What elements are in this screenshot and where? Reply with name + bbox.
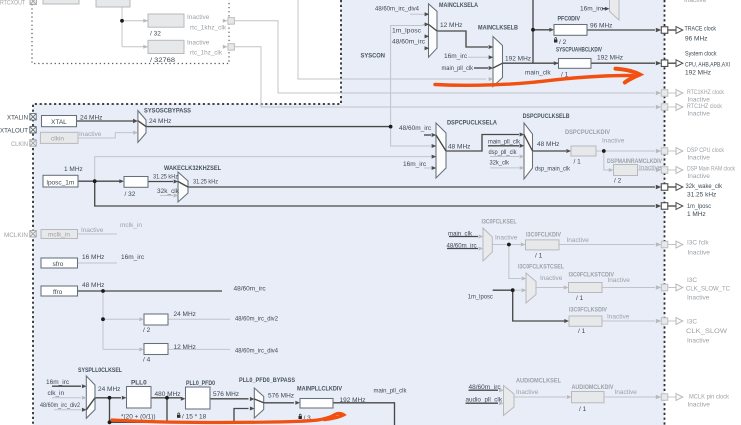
wire SYSOSC 24MHz to node xyxy=(146,126,391,128)
wire SYSPLL0CLKSEL 24MHz to PLL0 xyxy=(95,397,121,399)
svg-text:main_pll_clk: main_pll_clk xyxy=(442,65,474,72)
wire AUDIOMCLKDIV to MCLK output xyxy=(604,396,656,398)
wire 16m_irc stub to SYSPLL0CLKSEL xyxy=(52,385,81,387)
pin RTCXOUT xyxy=(30,0,36,4)
svg-text:DSPCPUCLKDIV: DSPCPUCLKDIV xyxy=(565,129,611,136)
svg-text:32k_clk: 32k_clk xyxy=(157,188,180,195)
svg-text:Inactive: Inactive xyxy=(684,0,707,4)
node lposc branch xyxy=(93,179,97,183)
svg-text:AUDIOMCLKSEL: AUDIOMCLKSEL xyxy=(516,378,561,385)
svg-text:/ 1: / 1 xyxy=(579,406,587,413)
svg-text:16m_irc: 16m_irc xyxy=(444,53,468,60)
wire ffro branch to /2 /4 dividers xyxy=(103,291,139,349)
wire rtc_1hz_clk to RTC1HZ output xyxy=(235,47,655,107)
wire rtc_1khz_clk to RTC1KHZ output xyxy=(235,21,655,93)
wire PFD0 576MHz to BYPASS mux xyxy=(210,398,249,400)
wire clkin inactive to SYSOSCBYPASS xyxy=(78,133,133,138)
wire 32k to MAINCLKSELB input4 xyxy=(298,0,486,79)
arrows I3C0FCLKSTCSEL xyxy=(522,277,527,281)
mux WAKECLK32KHZSEL xyxy=(178,172,188,202)
svg-text:/ 2: / 2 xyxy=(559,39,567,46)
connector TRACE clock xyxy=(656,27,683,34)
arrows I3C0FCLKSEL xyxy=(479,235,484,239)
connector rtc_1hz_clk xyxy=(223,44,235,51)
svg-text:48 MHz: 48 MHz xyxy=(537,141,559,148)
svg-text:Inactive: Inactive xyxy=(688,402,711,409)
arrows AUDIOMCLKSEL xyxy=(499,388,504,392)
wire 16m_irc stub top right xyxy=(602,8,605,10)
arrow into I3C0FCLKSDIV xyxy=(564,319,569,323)
svg-text:TRACE clock: TRACE clock xyxy=(685,26,717,33)
svg-text:1 MHz: 1 MHz xyxy=(64,166,83,173)
svg-text:DSP CPU clock: DSP CPU clock xyxy=(687,147,725,154)
pin CLKIN xyxy=(30,140,36,146)
SYSCPUAHBCLKDIV box xyxy=(559,59,592,69)
svg-text:576 MHz: 576 MHz xyxy=(213,391,239,398)
svg-text:I3C0FCLKSTCSEL: I3C0FCLKSTCSEL xyxy=(518,264,564,271)
svg-text:I3C: I3C xyxy=(687,277,697,284)
svg-text:48/60m_irc_div2: 48/60m_irc_div2 xyxy=(40,402,80,409)
I3C0FCLKSTCDIV box xyxy=(569,283,603,293)
svg-text:Inactive: Inactive xyxy=(540,275,563,282)
svg-text:1m_lposc: 1m_lposc xyxy=(392,28,422,35)
node PLL0 out branch xyxy=(165,396,169,400)
mux MAINCLKSELB xyxy=(493,37,503,87)
svg-text:Inactive: Inactive xyxy=(495,234,518,241)
wire 48/60m_irc stub to I3C0FCLKSEL xyxy=(447,248,478,250)
svg-text:PLL0_PFD0: PLL0_PFD0 xyxy=(186,380,215,387)
svg-text:mclk_in: mclk_in xyxy=(48,232,70,239)
wire /2 output div2 xyxy=(168,318,230,320)
wire div4 stub to MAINCLKSELA input1 xyxy=(410,13,428,15)
arrows SYSPLL0CLKSEL xyxy=(82,384,87,388)
connector I3C CLK_SLOW xyxy=(656,318,683,325)
arrow into DSPMAINRAMCLKDIV xyxy=(609,168,614,172)
ffro box xyxy=(41,286,78,296)
wire audio_pll_clk stub to AUDIOMCLKSEL xyxy=(466,402,499,404)
svg-text:Inactive: Inactive xyxy=(639,164,662,171)
mux DSPCPUCLKSELB xyxy=(524,123,533,179)
divider /4 xyxy=(144,344,168,355)
arrows DSPCPUCLKSELA xyxy=(432,133,437,137)
clkin box xyxy=(40,132,78,143)
DSPCPUCLKDIV box xyxy=(571,146,596,156)
divider /32768 RTC xyxy=(148,40,184,53)
svg-text:48/60m_irc_div4: 48/60m_irc_div4 xyxy=(235,348,278,355)
svg-text:Inactive: Inactive xyxy=(688,110,711,117)
svg-text:31.25 kHz: 31.25 kHz xyxy=(687,192,716,199)
svg-text:48/60m_irc: 48/60m_irc xyxy=(469,384,502,391)
svg-text:PFC0DIV: PFC0DIV xyxy=(558,15,581,22)
arrows WAKECLK32KHZSEL xyxy=(174,180,179,184)
arrow into /32 wake xyxy=(119,179,124,183)
mux SYSPLL0CLKSEL xyxy=(86,376,95,418)
wire lposc branch upper to DSPCPUCLKSELA input3 xyxy=(95,157,431,182)
arrow into PLL0_PFD0 xyxy=(181,397,186,401)
svg-text:/ 1: / 1 xyxy=(578,328,586,335)
svg-text:main_pll_clk: main_pll_clk xyxy=(374,388,408,395)
svg-text:Inactive: Inactive xyxy=(567,237,590,244)
wire main_pll_clk stub to MAINCLKSELB xyxy=(474,67,488,69)
svg-text:31.25 kHz: 31.25 kHz xyxy=(153,174,178,181)
connector DSP CPU clock xyxy=(656,148,683,155)
svg-text:48 MHz: 48 MHz xyxy=(82,282,104,289)
svg-text:I3C0FCLKSDIV: I3C0FCLKSDIV xyxy=(569,306,608,313)
wire 480 branch down xyxy=(166,398,168,423)
svg-text:I3C fclk: I3C fclk xyxy=(687,240,709,247)
svg-text:SYSCON: SYSCON xyxy=(361,53,386,60)
DSPMAINRAMCLKDIV box xyxy=(614,165,638,176)
svg-text:1m_lposc: 1m_lposc xyxy=(687,203,712,210)
wire 32k_wake_clk xyxy=(188,186,655,188)
wire MAINPLLCLKDIV 192MHz main_pll_clk xyxy=(333,403,395,425)
svg-text:AUDIOMCLKDIV: AUDIOMCLKDIV xyxy=(572,384,615,391)
PLL0 box xyxy=(127,387,152,409)
wire 48/60m_irc stub to MAINCLKSELA input4 xyxy=(424,47,428,49)
svg-text:/ 1: / 1 xyxy=(535,252,543,259)
arrow 16m mux top right xyxy=(605,7,610,11)
svg-text:System clock: System clock xyxy=(685,51,717,58)
svg-text:/ 15 * 18: / 15 * 18 xyxy=(182,413,207,420)
svg-text:audio_pll_clk: audio_pll_clk xyxy=(466,397,503,404)
svg-text:I3C0FCLKSEL: I3C0FCLKSEL xyxy=(482,219,517,226)
lock PFC0DIV /2 xyxy=(554,38,567,46)
node PLL0 in branch xyxy=(108,396,112,400)
arrow into I3C0FCLKDIV xyxy=(521,243,526,247)
pin XTALIN xyxy=(30,114,36,120)
svg-text:/ 1: / 1 xyxy=(574,159,582,166)
wire I3C0FCLKSDIV to CLK_SLOW output xyxy=(602,320,655,322)
svg-text:/ 2: / 2 xyxy=(614,177,622,184)
svg-text:MAINCLKSELA: MAINCLKSELA xyxy=(439,2,478,9)
connector RTC1HZ xyxy=(656,104,683,111)
svg-text:576 MHz: 576 MHz xyxy=(268,392,294,399)
svg-text:48/60m_irc_div4: 48/60m_irc_div4 xyxy=(375,6,419,13)
svg-text:XTALIN: XTALIN xyxy=(7,115,28,122)
svg-text:XTALOUT: XTALOUT xyxy=(0,128,28,135)
node bypass corner xyxy=(108,420,112,424)
svg-text:/ 32: / 32 xyxy=(150,31,161,38)
connector I3C fclk xyxy=(656,241,683,248)
wire 16m_irc stub to DSPCPUCLKSELA input4 xyxy=(424,167,431,169)
divider /32 RTC xyxy=(148,14,184,27)
mux SYSOSCBYPASS xyxy=(138,111,146,143)
svg-text:DSP Main RAM clock: DSP Main RAM clock xyxy=(687,165,736,172)
svg-text:/ 32: / 32 xyxy=(125,191,136,198)
arrow into PLL0 xyxy=(122,396,127,400)
arrow into SYSCPUAHBCLKDIV xyxy=(554,61,559,65)
mux PLL0_PFD0_BYPASS xyxy=(254,388,263,418)
wire 16m_irc stub to MAINCLKSELB xyxy=(468,56,488,58)
svg-text:Inactive: Inactive xyxy=(187,40,210,47)
svg-text:Inactive: Inactive xyxy=(687,338,710,345)
arrows SYSOSCBYPASS xyxy=(133,119,138,123)
mux I3C0FCLKSEL xyxy=(483,228,492,261)
svg-text:mclk_in: mclk_in xyxy=(120,222,142,229)
svg-text:24 MHz: 24 MHz xyxy=(149,118,171,125)
svg-text:480 MHz: 480 MHz xyxy=(155,391,181,398)
arrow into /32 rtc xyxy=(143,19,148,23)
wire node up to MAINCLKSELA input2 xyxy=(391,24,428,126)
svg-text:/ 2: / 2 xyxy=(143,327,151,334)
divider /2 xyxy=(144,314,168,325)
connector MCLK pin clock xyxy=(656,394,683,401)
wire 32k_clk stub to DSPCPUCLKSELB xyxy=(490,167,519,169)
wire main_clk 192MHz xyxy=(503,62,656,64)
mclk_in box xyxy=(41,230,78,239)
connector I3C CLK_SLOW_TC xyxy=(656,284,683,291)
svg-text:RTCXOUT: RTCXOUT xyxy=(0,0,25,7)
svg-text:Inactive: Inactive xyxy=(688,154,711,161)
svg-text:CPU, AHB,APB,AXI: CPU, AHB,APB,AXI xyxy=(685,61,730,68)
arrows MAINCLKSELA xyxy=(425,12,430,16)
connector DSP Main RAM clock xyxy=(656,167,683,174)
arrow into AUDIOMCLKDIV xyxy=(567,395,572,399)
svg-text:rtc_1hz_clk: rtc_1hz_clk xyxy=(190,50,223,57)
wire sfro 16MHz xyxy=(78,262,118,264)
arrow into PFC0DIV xyxy=(549,28,554,32)
mux MAINCLKSELA xyxy=(429,4,438,57)
mux 16m top right (cut) xyxy=(610,0,620,20)
node rtc divider tap xyxy=(120,19,124,23)
svg-text:192 MHz: 192 MHz xyxy=(597,54,623,61)
svg-text:CLK_SLOW: CLK_SLOW xyxy=(686,328,728,335)
node ffro branch xyxy=(101,289,105,293)
arrow into MAINPLLCLKDIV xyxy=(295,401,300,405)
svg-text:16m_irc: 16m_irc xyxy=(580,6,604,13)
svg-text:96 MHz: 96 MHz xyxy=(590,22,612,29)
annotation arrow main_clk xyxy=(435,76,633,86)
svg-text:I3C0FCLKDIV: I3C0FCLKDIV xyxy=(526,231,562,238)
svg-text:SYSCPUAHBCLKDIV: SYSCPUAHBCLKDIV xyxy=(556,46,603,53)
svg-text:192 MHz: 192 MHz xyxy=(505,56,531,63)
wire lposc branch lower to 1m_lposc output xyxy=(95,181,655,206)
wire branch to I3C0FCLKSTCSEL input1 xyxy=(509,245,521,279)
svg-text:main_clk: main_clk xyxy=(448,230,473,237)
I3C0FCLKSDIV box xyxy=(569,316,602,326)
connector 1m_lposc xyxy=(656,203,683,210)
wire MAINCLKSELA 12MHz to MAINCLKSELB xyxy=(437,31,488,47)
wire I3C0FCLKSTCSEL out to I3C0FCLKSTCDIV xyxy=(536,287,565,289)
svg-text:I3C: I3C xyxy=(687,319,697,326)
mux AUDIOMCLKSEL xyxy=(504,386,515,416)
wire DSPCPUCLKDIV to DSP CPU output xyxy=(596,150,655,152)
svg-text:12 MHz: 12 MHz xyxy=(174,344,196,351)
wire main_clk stub to I3C0FCLKSEL xyxy=(449,236,478,238)
wire 32k_clk stub to WAKECLK32KHZSEL xyxy=(160,195,173,197)
XTAL box xyxy=(42,116,77,127)
svg-text:48/60m_irc: 48/60m_irc xyxy=(392,39,426,46)
wire /4 output div4 xyxy=(168,348,230,350)
wire main_pll_clk stub to DSPCPUCLKSELB xyxy=(488,145,519,147)
svg-text:main_clk: main_clk xyxy=(525,70,551,77)
svg-text:MAINCLKSELB: MAINCLKSELB xyxy=(478,24,518,31)
svg-text:dsp_main_clk: dsp_main_clk xyxy=(535,165,571,172)
svg-text:32k_clk: 32k_clk xyxy=(490,159,510,166)
wire 1m_lposc stub to MAINCLKSELA input3 xyxy=(424,35,428,37)
svg-text:lposc_1m: lposc_1m xyxy=(47,180,75,187)
mux DSPCPUCLKSELA xyxy=(436,123,446,178)
arrows DSPCPUCLKSELB xyxy=(520,133,525,137)
svg-text:SYSOSCBYPASS: SYSOSCBYPASS xyxy=(144,108,192,115)
pin MCLKIN xyxy=(30,231,36,237)
node DSP CPU div out xyxy=(602,149,606,153)
svg-text:/ 4: / 4 xyxy=(143,357,151,364)
svg-text:24 MHz: 24 MHz xyxy=(174,311,196,318)
PLL0_PFD0 box xyxy=(186,387,211,409)
svg-text:48 MHz: 48 MHz xyxy=(448,144,470,151)
svg-text:ffro: ffro xyxy=(53,289,63,296)
svg-text:48/60m_irc_div2: 48/60m_irc_div2 xyxy=(235,316,278,323)
svg-text:Inactive: Inactive xyxy=(79,131,102,138)
wire I3C0FCLKSEL out to I3C0FCLKDIV xyxy=(492,244,521,246)
svg-text:Inactive: Inactive xyxy=(688,250,711,257)
connector rtc_1khz_clk xyxy=(223,18,235,25)
wire XTAL to SYSOSCBYPASS xyxy=(77,120,133,122)
lock PFD0 xyxy=(177,413,180,418)
wire PLL0 480MHz to PLL0_PFD0 xyxy=(151,397,182,399)
annotation arrow pll row xyxy=(112,420,318,422)
svg-text:MCLKIN: MCLKIN xyxy=(4,232,28,239)
svg-text:Inactive: Inactive xyxy=(516,389,539,396)
svg-text:16m_irc: 16m_irc xyxy=(121,254,145,261)
wire ffro 48MHz xyxy=(78,290,223,292)
svg-text:Inactive: Inactive xyxy=(608,277,631,284)
wire AUDIOMCLKSEL out to AUDIOMCLKDIV xyxy=(514,396,566,398)
svg-text:main_pll_clk: main_pll_clk xyxy=(488,138,521,145)
wire mclk_in inactive xyxy=(78,233,118,235)
svg-text:12 MHz: 12 MHz xyxy=(440,22,462,29)
svg-text:MCLK pin clock: MCLK pin clock xyxy=(689,394,730,401)
svg-text:31.25 kHz: 31.25 kHz xyxy=(193,179,218,186)
svg-text:Inactive: Inactive xyxy=(81,227,104,234)
svg-text:24 MHz: 24 MHz xyxy=(80,115,102,122)
svg-text:PLL0_PFD0_BYPASS: PLL0_PFD0_BYPASS xyxy=(239,377,296,384)
svg-text:48/60m_irc: 48/60m_irc xyxy=(447,242,478,249)
svg-text:96 MHz: 96 MHz xyxy=(685,36,707,43)
mux I3C0FCLKSTCSEL xyxy=(526,273,536,303)
svg-text:SYSPLL0CLKSEL: SYSPLL0CLKSEL xyxy=(78,367,122,374)
wire branch to PFC0DIV xyxy=(533,29,550,31)
arrows into /2 /4 xyxy=(139,317,144,321)
connector 32k_wake_clk xyxy=(656,184,683,191)
connector System clock xyxy=(656,60,683,67)
lock MAINPLLCLKDIV /3 xyxy=(299,414,302,419)
wire node down to DSPCPUCLKSELA input2 xyxy=(391,127,431,146)
RTC block dotted border xyxy=(32,0,229,64)
wire 1m_lposc stub to I3C0FCLKSTCSEL input2 xyxy=(493,289,513,291)
arrows PLL0_PFD0_BYPASS xyxy=(250,397,255,401)
node main_clk / PFC0DIV xyxy=(531,28,535,32)
I3C0FCLKDIV box xyxy=(526,240,560,250)
wire 48/60m_irc stub to AUDIOMCLKSEL xyxy=(469,389,499,391)
svg-text:sfro: sfro xyxy=(53,261,64,268)
svg-text:RTC1KHZ clock: RTC1KHZ clock xyxy=(687,89,725,96)
wire branch to DSPMAINRAMCLKDIV xyxy=(604,151,609,170)
svg-text:192 MHz: 192 MHz xyxy=(340,397,366,404)
svg-text:CLKIN: CLKIN xyxy=(11,141,28,148)
svg-text:DSPCPUCLKSELA: DSPCPUCLKSELA xyxy=(447,119,497,126)
svg-text:/ 32768: / 32768 xyxy=(150,57,175,64)
wire PLL0 bypass tap xyxy=(110,398,249,423)
svg-text:RTC1HZ clock: RTC1HZ clock xyxy=(687,103,723,110)
divider /32 wake xyxy=(124,177,148,188)
svg-text:PLL0: PLL0 xyxy=(131,380,147,387)
wire main_clk riser xyxy=(532,0,534,63)
rtc osc box fragment 1 xyxy=(43,0,79,4)
svg-text:16m_irc: 16m_irc xyxy=(403,161,427,168)
svg-text:48/60m_irc: 48/60m_irc xyxy=(399,125,432,132)
wire PFC0DIV to TRACE output xyxy=(587,29,655,31)
node div branch xyxy=(101,317,105,321)
wire BYPASS 576MHz to MAINPLLCLKDIV xyxy=(264,402,294,404)
sfro box xyxy=(41,258,78,268)
wire clk_in stub to SYSPLL0CLKSEL xyxy=(52,397,81,399)
SYSCON dotted border xyxy=(33,0,341,425)
svg-text:16 MHz: 16 MHz xyxy=(82,254,104,261)
svg-text:Inactive: Inactive xyxy=(688,173,711,180)
svg-text:Inactive: Inactive xyxy=(615,389,638,396)
svg-text:Inactive: Inactive xyxy=(687,295,710,302)
svg-text:MAINPLLCLKDIV: MAINPLLCLKDIV xyxy=(297,385,343,392)
connector RTC1KHZ xyxy=(656,90,683,97)
svg-text:24 MHz: 24 MHz xyxy=(98,386,120,393)
arrow into I3C0FCLKSTCDIV xyxy=(564,286,569,290)
peripheral dashed boundary xyxy=(664,0,666,425)
rtc osc box fragment 2 xyxy=(96,0,130,7)
AUDIOMCLKDIV box xyxy=(572,392,605,403)
svg-text:rtc_1khz_clk: rtc_1khz_clk xyxy=(190,25,227,32)
node I3C fclk branch xyxy=(507,243,511,247)
svg-text:clk_in: clk_in xyxy=(48,390,65,397)
lposc_1m box xyxy=(43,175,78,187)
svg-text:clkin: clkin xyxy=(51,136,64,143)
wire /32 to WAKECLK32KHZSEL xyxy=(148,181,173,183)
wire 48/60m_irc stub to DSPCPUCLKSELA input1 xyxy=(424,134,431,136)
svg-text:1m_lposc: 1m_lposc xyxy=(468,294,494,301)
PFC0DIV box xyxy=(554,25,587,36)
svg-text:/ 1: / 1 xyxy=(576,295,584,302)
wire DSPMAINRAMCLKDIV to output xyxy=(638,169,656,171)
wire dsp_pll_clk stub to DSPCPUCLKSELB xyxy=(490,156,519,158)
svg-text:Inactive: Inactive xyxy=(602,137,625,144)
node 24MHz / DSP input xyxy=(389,125,393,129)
svg-text:192 MHz: 192 MHz xyxy=(685,69,711,76)
svg-text:DSPCPUCLKSELB: DSPCPUCLKSELB xyxy=(523,113,570,120)
svg-text:16m_irc: 16m_irc xyxy=(46,379,70,386)
wire rtc osc to dividers xyxy=(122,7,148,47)
svg-text:CLK_SLOW_TC: CLK_SLOW_TC xyxy=(686,286,730,293)
arrows MAINCLKSELB xyxy=(489,45,494,49)
MAINPLLCLKDIV box xyxy=(300,399,333,409)
svg-text:Inactive: Inactive xyxy=(187,14,210,21)
wire dsp_main_clk to DSPCPUCLKDIV xyxy=(533,150,567,152)
wire I3C0FCLKDIV to I3C fclk output xyxy=(559,244,655,246)
arrow into DSPCPUCLKDIV xyxy=(566,149,571,153)
svg-text:48/60m_irc: 48/60m_irc xyxy=(234,286,267,293)
wire div2 stub to SYSPLL0CLKSEL xyxy=(54,409,81,411)
pin XTALOUT xyxy=(30,127,36,133)
wire lposc_1m to /32 divider xyxy=(78,180,122,182)
wire DSPCPUCLKSELA out to DSPCPUCLKSELB xyxy=(446,135,519,152)
node 1m_lposc I3C branch xyxy=(511,288,515,292)
svg-text:32k_wake_clk: 32k_wake_clk xyxy=(686,183,723,190)
svg-text:WAKECLK32KHZSEL: WAKECLK32KHZSEL xyxy=(164,165,221,172)
wire 1m_lposc branch down to I3C0FCLKSDIV xyxy=(513,290,565,321)
svg-text:1 MHz: 1 MHz xyxy=(687,211,706,218)
svg-text:Inactive: Inactive xyxy=(607,313,630,320)
svg-text:dsp_pll_clk: dsp_pll_clk xyxy=(489,149,518,156)
